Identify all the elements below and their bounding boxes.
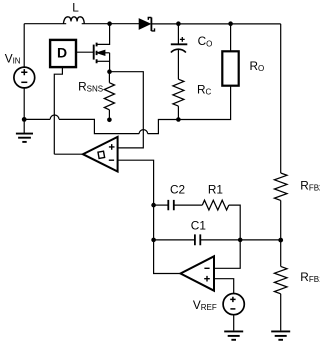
svg-text:R1: R1	[208, 183, 223, 197]
svg-text:C1: C1	[191, 219, 206, 233]
svg-text:L: L	[72, 1, 79, 15]
svg-text:C2: C2	[170, 183, 185, 197]
svg-text:D: D	[57, 44, 67, 60]
